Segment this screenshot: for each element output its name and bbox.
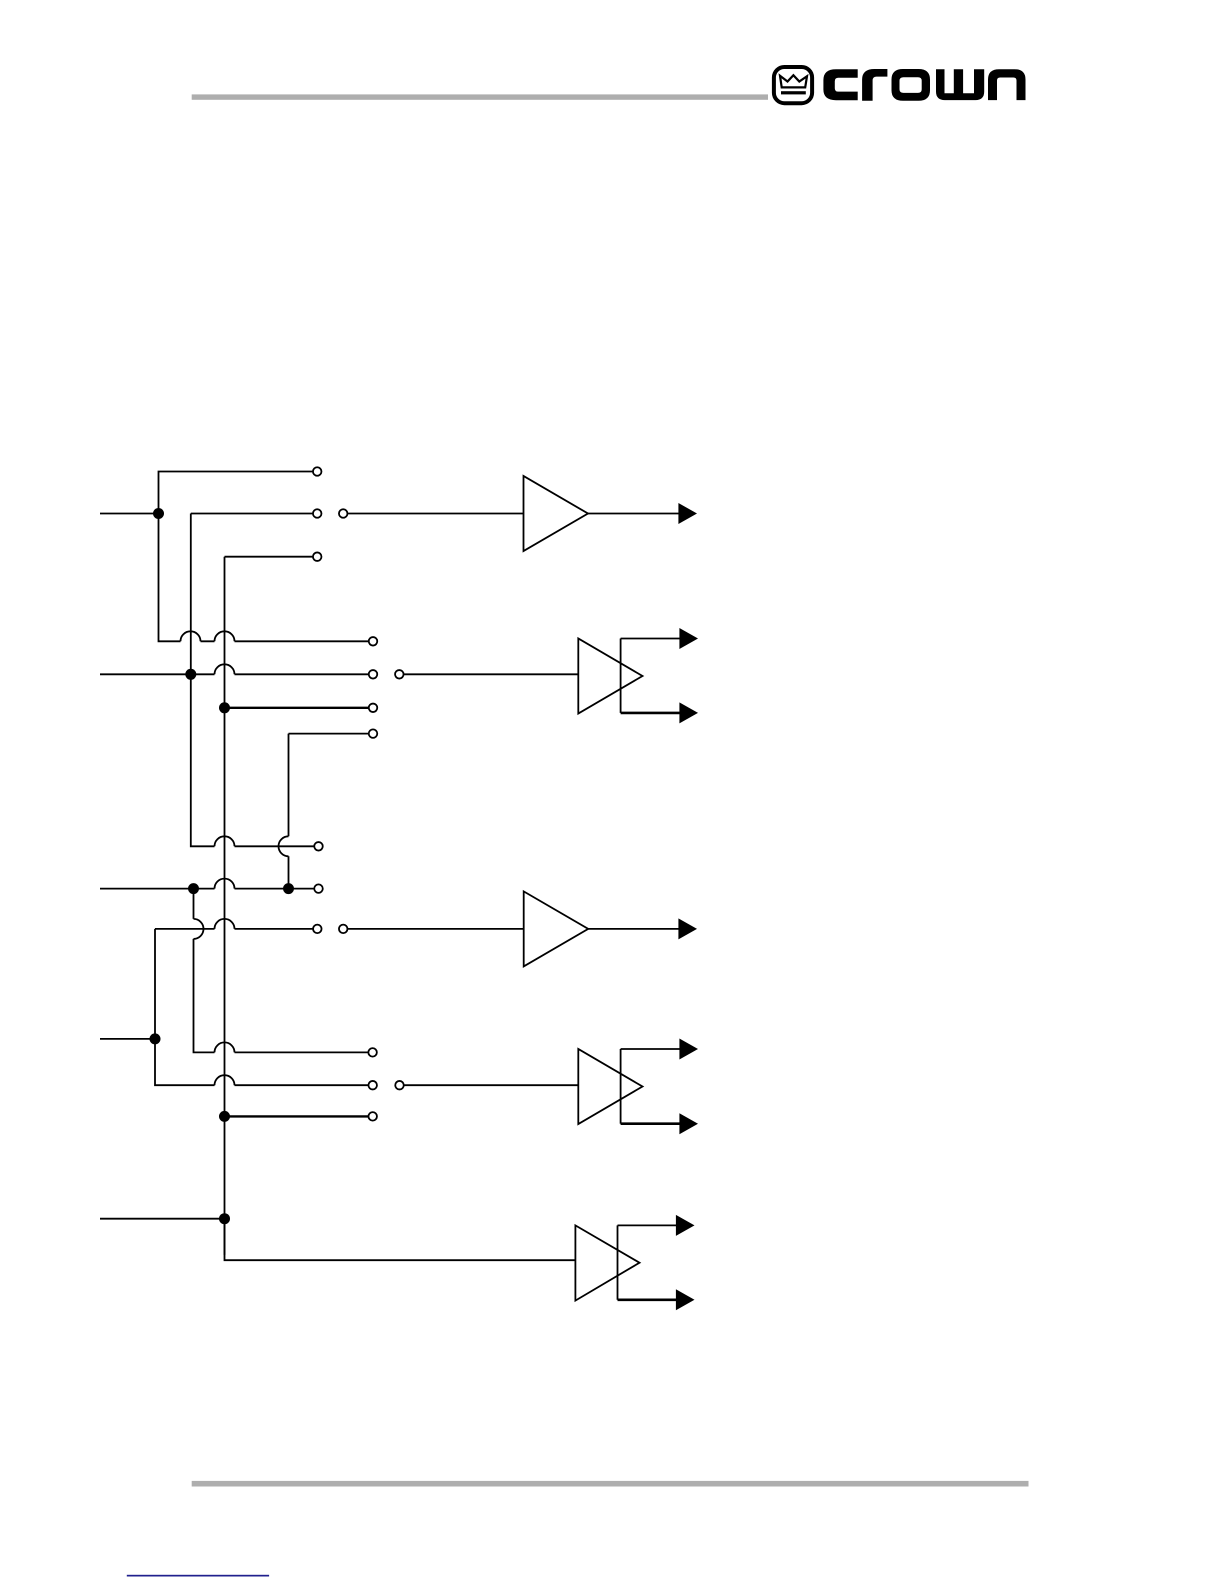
Crown logo badge	[774, 67, 812, 103]
terminal 3C	[313, 925, 322, 934]
crown glyph	[780, 75, 807, 87]
wire output A5 bottom	[618, 1299, 678, 1302]
wire net V3 top corner	[225, 557, 313, 1255]
junction input 1	[153, 508, 164, 519]
terminal 3D switch	[339, 925, 348, 934]
terminal 2A	[369, 637, 378, 646]
terminal 4D	[368, 1112, 377, 1121]
junction input 3 left	[188, 883, 199, 894]
amplifier A3	[524, 891, 589, 966]
wire output bus A2	[620, 639, 622, 713]
terminal 4C switch	[395, 1081, 404, 1090]
wire input 4	[100, 1038, 155, 1040]
wire output bus A5	[617, 1225, 619, 1299]
amplifier A1	[524, 476, 589, 551]
hop over vertical at 190.5	[181, 631, 201, 641]
junction input 3 right	[283, 883, 294, 894]
wire net V4	[194, 889, 369, 1053]
wire V3 to amplifier 5	[225, 1219, 576, 1261]
hop input3 over vertical 224.5	[215, 879, 235, 889]
junction input 4	[150, 1033, 161, 1044]
footer link line	[127, 1575, 269, 1577]
wire output A2 bottom	[621, 712, 681, 715]
terminal 1D	[313, 552, 322, 561]
output arrow A4 bottom	[679, 1113, 698, 1134]
wire input 3	[100, 888, 314, 890]
terminal 1C switch	[339, 509, 348, 518]
terminal 1A	[313, 467, 322, 476]
terminal 4B	[368, 1081, 377, 1090]
wire output A1	[588, 513, 680, 515]
output arrow A2 bottom	[679, 702, 698, 723]
output arrow A5 bottom	[676, 1289, 695, 1310]
junction V3 row4	[219, 1111, 230, 1122]
junction V3 row2	[219, 702, 230, 713]
terminal 3A	[314, 842, 323, 851]
hop over vertical 224.5 at 928.9	[215, 919, 235, 929]
Crown wordmark	[823, 69, 1025, 101]
output arrow A3	[678, 918, 697, 939]
hop over vertical 224.5 at 1052	[215, 1042, 235, 1052]
wire net row3 select	[155, 929, 368, 1085]
terminal 2E	[369, 729, 378, 738]
vertical hop over wire at 846	[279, 836, 289, 856]
wire select net row1	[191, 514, 313, 675]
hop input2 over vertical 224.5	[215, 664, 235, 674]
output arrow A2 top	[679, 628, 698, 649]
vertical hop over wire at 928.9	[194, 919, 204, 939]
terminal 3B	[314, 884, 323, 893]
output arrow A4 top	[679, 1039, 698, 1060]
wire junction to terminal 2D	[225, 707, 369, 709]
wire input 1	[100, 513, 159, 515]
header rule	[192, 94, 768, 99]
hop over vertical 224.5 at 1085	[215, 1075, 235, 1085]
footer rule	[192, 1481, 1029, 1487]
amplifier A4	[578, 1049, 642, 1124]
output arrow A1	[678, 503, 697, 524]
hop over vertical 224.5 at 846	[215, 836, 235, 846]
wire to amplifier 1	[348, 513, 524, 515]
wire input 2	[100, 673, 368, 675]
wire net V2 lower to terminal 3A	[191, 674, 314, 846]
wire junction to terminal 4D	[225, 1115, 369, 1117]
amplifier A5	[575, 1225, 639, 1300]
wire output A4 bottom	[621, 1122, 681, 1125]
junction input 5	[219, 1213, 230, 1224]
amplifier A2	[578, 639, 642, 714]
wire branch up to terminal 1A	[159, 472, 313, 514]
wire to amplifier 3	[348, 928, 524, 930]
hop over vertical at 224.5	[215, 631, 235, 641]
wire to amplifier 2	[404, 673, 578, 675]
wire branch down with hops to terminal 2A	[159, 514, 369, 642]
terminal 2B	[369, 670, 378, 679]
wire output A4 top	[621, 1048, 681, 1050]
terminal 2D	[369, 704, 378, 713]
wire output bus A4	[620, 1049, 622, 1124]
output arrow A5 top	[676, 1215, 695, 1236]
junction input 2	[185, 669, 196, 680]
wire output A3	[588, 928, 680, 930]
wire input 5	[100, 1218, 225, 1220]
wire to amplifier 4	[404, 1084, 578, 1086]
wire output A5 top	[618, 1224, 678, 1226]
terminal 1B	[313, 509, 322, 518]
terminal 2C switch	[395, 670, 404, 679]
wire output A2 top	[621, 638, 681, 640]
terminal 4A	[368, 1048, 377, 1057]
wire net V5	[289, 734, 369, 889]
